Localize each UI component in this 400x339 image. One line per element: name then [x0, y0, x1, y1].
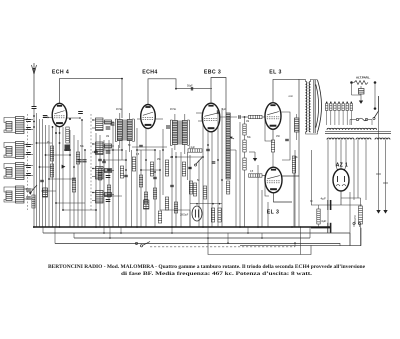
B+ riser [310, 150, 312, 205]
junction dots middle [95, 78, 177, 173]
wire [242, 116, 249, 118]
V1 pin dots [55, 118, 71, 134]
wire [81, 120, 83, 227]
power transformer secondary fil2 [375, 138, 390, 140]
capacitor C14 [94, 151, 98, 152]
wire [42, 119, 44, 227]
resistor R2 [50, 164, 53, 177]
trimmer pair [77, 160, 81, 162]
antenna [32, 63, 37, 107]
V1 grid trimmer [43, 116, 47, 118]
horizontal link [160, 209, 190, 211]
value labels [47, 109, 313, 203]
electrolytic can C9 [192, 206, 202, 221]
wire [294, 243, 296, 247]
wire [159, 150, 161, 210]
horizontal link [63, 209, 96, 211]
horizontal link [96, 149, 122, 151]
cathode resistor R21 [271, 140, 274, 152]
svg-text:EL 3: EL 3 [269, 70, 281, 76]
horizontal link [40, 166, 53, 168]
wire [77, 140, 79, 227]
potentiometer body [32, 195, 35, 208]
wire [262, 116, 265, 118]
V1 left pin [48, 117, 52, 119]
bleeder resistor R23 [317, 209, 320, 224]
horizontal resistor R15 [188, 149, 202, 152]
svg-text:AZ 1: AZ 1 [336, 163, 348, 169]
wire [360, 94, 362, 101]
chassis bus (heavy) [33, 226, 330, 228]
svg-text:di fase BF. Media frequenza: 4: di fase BF. Media frequenza: 467 kc. Pot… [121, 271, 313, 277]
wire [244, 170, 246, 227]
wire [189, 210, 191, 227]
capacitor C19 [188, 167, 192, 168]
horizontal link [141, 169, 160, 171]
wire [154, 150, 156, 227]
resistor R14 [203, 186, 206, 199]
wire [349, 192, 351, 245]
resistor R29 [174, 202, 177, 213]
wire [264, 176, 266, 191]
grid-cap wire V1 [60, 79, 123, 118]
resistor R25 [107, 185, 110, 197]
tube V3 EBC3 [202, 103, 220, 132]
bus line 4 [55, 243, 340, 245]
resistor R12 [182, 162, 185, 176]
resistor R4 [72, 178, 75, 192]
capacitor C17 [153, 177, 157, 178]
capacitor C11 [285, 139, 289, 140]
HT lead [327, 140, 329, 228]
wire [211, 132, 213, 227]
pot wiper arrow [231, 137, 235, 139]
rectifier output wire [340, 191, 342, 205]
resistor R27 [144, 192, 147, 204]
capacitor C18 [170, 185, 174, 186]
V2 right pin [155, 118, 163, 120]
fil lead 2 [365, 140, 367, 201]
band switch shaft 2 (dashed) [26, 114, 28, 210]
V2 left pin [137, 118, 141, 120]
wire [235, 150, 237, 227]
resistor R32 [211, 208, 214, 222]
wire [112, 124, 114, 227]
resistor R8 [165, 160, 168, 176]
capacitor C15 [102, 161, 106, 162]
power transformer primary [327, 128, 377, 130]
V1 right pin [67, 117, 80, 119]
horizontal link [56, 202, 85, 204]
power transformer secondary fil1 [356, 138, 371, 140]
wire [190, 203, 222, 205]
wire [244, 135, 246, 140]
resistor R19 [243, 158, 246, 170]
output transformer secondary [309, 82, 310, 132]
oscillator coil L5 [92, 118, 114, 131]
resistor R1 [50, 146, 53, 161]
wire [360, 86, 362, 89]
bus junction dots [103, 226, 301, 244]
wire [69, 130, 71, 227]
wire [244, 152, 246, 158]
svg-text:2000µF: 2000µF [180, 214, 189, 217]
wire [341, 197, 361, 199]
svg-text:50pF: 50pF [187, 84, 193, 87]
capacitor C21 [217, 110, 218, 114]
wire [48, 125, 50, 227]
resistor R31 below pot [226, 181, 229, 194]
grid resistor R16 (horizontal) [249, 115, 263, 118]
resistor R10 [158, 211, 161, 223]
resistor R17 [243, 124, 246, 135]
fuse [356, 118, 358, 120]
resistor R18 [243, 140, 246, 152]
svg-text:1M: 1M [106, 136, 109, 138]
wire [208, 238, 311, 255]
output terminals [353, 222, 355, 224]
voltage selector taps [326, 102, 353, 126]
resistor R9 [165, 197, 168, 210]
wire [180, 152, 182, 227]
svg-text:cont: cont [289, 95, 294, 98]
wire [293, 173, 295, 227]
svg-text:BERTONCINI RADIO - Mod. MALOMB: BERTONCINI RADIO - Mod. MALOMBRA - Quatt… [48, 264, 366, 270]
antenna trimmer capacitor [32, 107, 37, 109]
mechanical link (dashed) [150, 246, 295, 248]
wire [62, 127, 64, 210]
svg-text:EL 3: EL 3 [267, 210, 279, 216]
resistor R28 [153, 188, 156, 199]
oscillator coil L8 [92, 191, 114, 204]
resistor R30 [189, 181, 192, 194]
wire [33, 109, 35, 228]
tube V5 EL3 [265, 167, 282, 193]
screen wires [282, 112, 291, 160]
wire [108, 140, 110, 227]
wire [99, 135, 101, 227]
wire [198, 160, 200, 227]
volume potentiometer arm [30, 185, 37, 193]
bus line 2 [43, 232, 350, 234]
heater line A [378, 96, 380, 210]
wire [207, 132, 209, 227]
fil lead [357, 140, 359, 199]
capacitor C22 [212, 162, 216, 163]
plate wire V3 [211, 78, 226, 114]
wire [103, 140, 105, 227]
wire [261, 190, 263, 227]
wire [350, 119, 356, 121]
resistor R5 [76, 152, 79, 164]
capacitor C8 [191, 87, 192, 91]
horizontal link [137, 149, 155, 151]
wire [257, 165, 259, 227]
horizontal link [46, 154, 71, 156]
capacitor C1 [40, 180, 44, 181]
svg-text:EBC 3: EBC 3 [204, 70, 221, 76]
band switch shaft (dashed) [90, 114, 92, 210]
wire [187, 152, 189, 180]
capacitor C20 [206, 149, 210, 150]
capacitor C6 [107, 169, 111, 170]
junction dots extra [33, 144, 329, 228]
screen capacitor C7 [144, 200, 149, 209]
wire [202, 117, 203, 128]
antenna coil L3 [4, 163, 33, 180]
wire [140, 150, 142, 227]
resistor R3 [66, 127, 69, 143]
wire [59, 127, 61, 227]
horizontal link [43, 190, 57, 192]
wire [272, 152, 274, 167]
wire [73, 135, 75, 227]
wire [262, 175, 265, 177]
small tick marks [376, 173, 381, 175]
mains switch [374, 111, 379, 118]
V5 bottom wire [274, 193, 293, 202]
wire [121, 136, 123, 160]
wire [55, 126, 57, 227]
resistor R7 [150, 162, 153, 176]
antenna coil L2 [4, 142, 33, 159]
V4 cathode wire [272, 129, 274, 140]
terminal post left [350, 81, 353, 84]
AVC capacitor C3 [65, 145, 71, 152]
bus right risers [349, 233, 351, 246]
speaker cone [318, 80, 322, 132]
padding capacitor C2 [43, 188, 48, 197]
wire [175, 152, 177, 227]
chassis arrow 2 [359, 101, 363, 104]
grid wires EL3 [265, 133, 273, 141]
grid resistor R20 (horizontal) [249, 174, 263, 177]
junction [244, 116, 246, 118]
horizontal link [176, 156, 203, 158]
HT center tap [340, 140, 342, 170]
junction dots [33, 115, 83, 192]
antenna coil L1 [4, 117, 33, 134]
field coil choke [359, 206, 363, 224]
svg-text:2M: 2M [170, 157, 173, 159]
svg-text:1µF: 1µF [222, 109, 227, 111]
wire [145, 128, 147, 227]
bus line 3 [74, 237, 310, 239]
resistor R24 [98, 168, 101, 180]
wire [221, 108, 223, 227]
plate wire V5 [282, 79, 306, 176]
capacitor block [359, 89, 365, 95]
wire [220, 116, 237, 118]
horizontal link [104, 195, 122, 197]
wire [45, 125, 47, 227]
capacitor C5 [98, 159, 102, 160]
wire [125, 150, 127, 227]
svg-text:0,1µF: 0,1µF [189, 147, 196, 149]
heater line B [385, 140, 387, 211]
volume potentiometer [226, 113, 230, 179]
filter capacitor C12 4uF [328, 200, 331, 210]
wire [264, 117, 266, 133]
wire [39, 119, 41, 227]
svg-text:467kc: 467kc [170, 109, 177, 111]
AVC diode arrow [62, 165, 66, 169]
resistor R13 [193, 183, 196, 196]
wire [136, 128, 138, 227]
resistor R33 [218, 208, 221, 222]
voice coil winding [295, 118, 300, 132]
wire [118, 145, 120, 227]
output transformer primary [306, 82, 307, 132]
oscillator coil L6 [92, 142, 114, 155]
wire [171, 148, 173, 227]
coupling wire with capacitor [176, 88, 212, 90]
oscillator coil L7 [92, 167, 114, 180]
wire [244, 117, 246, 124]
bus left risers [42, 227, 44, 233]
tube V2 ECH4 [141, 105, 156, 129]
IF transformer T2 [166, 114, 189, 154]
speaker wires [305, 79, 307, 81]
chassis arrow [254, 152, 256, 158]
wire [131, 150, 133, 227]
tube V6 AZ1 [333, 169, 349, 191]
field resistor zigzag [354, 81, 368, 85]
wire [84, 150, 86, 227]
horizontal link [132, 146, 167, 148]
wire [202, 128, 204, 227]
B+ wire [311, 204, 362, 206]
wire [226, 149, 236, 151]
wire [95, 133, 97, 227]
power transformer core [325, 131, 391, 133]
wire [162, 129, 164, 195]
wire [267, 202, 269, 227]
antenna coil L4 [4, 186, 33, 203]
HT lead 2 [353, 140, 355, 201]
coupling capacitor C10 [239, 115, 240, 119]
switch fono [196, 158, 203, 165]
capacitor C4 [139, 145, 143, 146]
B+ wire 2 [311, 227, 331, 229]
svg-text:4µF: 4µF [321, 219, 327, 223]
terminal post right [374, 81, 377, 84]
resistor R6 [132, 157, 135, 171]
horizontal link [104, 159, 126, 161]
mains switch on pot [135, 242, 137, 244]
tube V1 ECH4 [52, 103, 67, 126]
wire [239, 122, 241, 227]
grid-cap wire V2 [148, 79, 176, 104]
wire [360, 198, 362, 206]
svg-text:ECH4: ECH4 [142, 70, 157, 76]
svg-text:467kc: 467kc [116, 109, 123, 111]
svg-text:4µF: 4µF [321, 197, 327, 201]
V3 diode pins [196, 112, 203, 114]
svg-text:1M: 1M [246, 121, 249, 123]
rectifier plate wires [336, 140, 338, 171]
capacitor C16 [124, 175, 128, 176]
wire [298, 176, 300, 227]
horizontal link [49, 178, 74, 180]
resistor R22 [292, 156, 295, 173]
svg-text:ECH 4: ECH 4 [52, 70, 69, 76]
wire [36, 113, 38, 227]
wire [189, 155, 191, 227]
wire [296, 132, 298, 140]
wire [52, 126, 54, 227]
cathode resistor R11 [120, 166, 123, 178]
svg-text:ALT.PARL.: ALT.PARL. [356, 76, 371, 80]
wire [294, 150, 296, 227]
wire [318, 205, 320, 209]
wire [349, 120, 351, 126]
output transformer core [313, 80, 315, 133]
IF transformer T1 [111, 113, 135, 152]
pilot lamp line [374, 84, 376, 107]
bottom return wire [240, 228, 361, 246]
horizontal link [37, 142, 53, 144]
power transformer secondary HT [327, 138, 354, 140]
wire [43, 115, 48, 117]
plate wire V4 [273, 79, 299, 102]
wire [299, 227, 301, 255]
filter capacitor C13 4uF [328, 223, 331, 233]
tube V4 EL3 [265, 103, 281, 130]
wire [217, 112, 219, 227]
resistor R26 [139, 175, 142, 187]
